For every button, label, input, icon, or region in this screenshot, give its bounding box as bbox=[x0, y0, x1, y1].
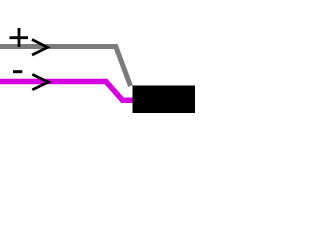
wire negative (magenta) bbox=[0, 82, 134, 101]
arrow on positive wire bbox=[32, 40, 48, 56]
wire positive (gray) bbox=[0, 47, 131, 87]
label minus bbox=[13, 70, 22, 73]
component black box (connector) bbox=[133, 86, 196, 114]
label plus bbox=[10, 28, 29, 47]
arrow on negative wire bbox=[32, 74, 48, 89]
